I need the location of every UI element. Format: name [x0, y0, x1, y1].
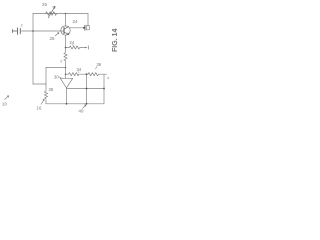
leader tick label 30	[59, 76, 62, 79]
svg-text:16: 16	[37, 106, 42, 111]
wire emitter down to input node	[65, 35, 67, 52]
wire resistor to node	[65, 62, 67, 79]
node junction output/right bus	[103, 88, 105, 90]
node junction feedback/rail	[86, 103, 88, 105]
wire box left vertical	[45, 68, 47, 91]
wire top rail down to crystal	[87, 14, 89, 26]
svg-text:2: 2	[21, 24, 23, 28]
wire box top horizontal	[46, 67, 66, 69]
svg-text:34: 34	[77, 67, 82, 72]
capacitor C input lead	[13, 30, 17, 32]
node junction collector/rail	[65, 13, 67, 15]
node junction cap/left bus	[32, 30, 34, 32]
leader tick label 24b	[72, 44, 75, 46]
svg-text:40: 40	[79, 109, 84, 114]
output terminal stub	[104, 73, 107, 75]
svg-text:10: 10	[2, 102, 7, 107]
wire output down to rail	[66, 88, 68, 104]
resistor R vertical upper zigzag	[64, 53, 67, 61]
crystal body rectangle	[86, 26, 89, 30]
node junction right lead	[83, 27, 85, 29]
leader arrow label 16	[41, 99, 44, 104]
wire branch to arrow	[80, 47, 86, 49]
svg-text:24: 24	[73, 19, 78, 24]
wire emitter branch right	[66, 47, 70, 49]
wire collector up to rail	[65, 14, 67, 27]
transistor Q collector diagonal	[64, 27, 69, 30]
svg-text:30: 30	[54, 75, 59, 80]
svg-text:FIG. 14: FIG. 14	[112, 29, 119, 52]
capacitor C left terminal tick	[12, 29, 14, 32]
leader arrow label 40	[83, 105, 87, 109]
node junction box-top/input	[65, 67, 67, 69]
svg-text:2: 2	[60, 60, 62, 64]
leader tick label 36	[95, 66, 97, 69]
wire output horizontal to right bus	[67, 88, 105, 90]
crystal left plate	[84, 25, 86, 30]
svg-text:36: 36	[97, 62, 102, 67]
wire feedback line with resistors	[66, 73, 69, 75]
wire between R1 and R2	[80, 73, 89, 75]
resistor R emitter-branch zigzag	[69, 46, 79, 49]
node junction feedback/output	[86, 88, 88, 90]
wire right vertical bus	[103, 74, 105, 104]
leader arrow label 10	[5, 96, 9, 100]
transistor Q emitter diagonal with arrow	[64, 32, 69, 35]
wire transistor right lead	[70, 27, 84, 29]
resistor R lower-left vertical zigzag	[44, 91, 47, 99]
leader line label 28	[55, 33, 59, 36]
potentiometer R26 zigzag	[46, 12, 57, 16]
wire capacitor to transistor base	[22, 30, 64, 32]
node junction feedback-line/input	[65, 73, 67, 75]
wire left-to-box horizontal	[33, 83, 46, 85]
svg-text:38: 38	[49, 87, 54, 92]
node junction feedback top	[86, 73, 88, 75]
transistor Q circle	[61, 26, 70, 35]
capacitor C plates	[18, 28, 21, 35]
node junction output/rail	[66, 103, 68, 105]
node junction emitter branch	[65, 47, 67, 49]
wire left vertical bus	[32, 14, 34, 85]
terminal tick branch	[87, 46, 89, 49]
arrowhead branch terminal	[85, 47, 87, 49]
transistor Q base bar	[63, 28, 65, 34]
potentiometer arrow	[48, 6, 55, 17]
wire feedback vertical drop	[86, 74, 88, 104]
wire R2 to right bus	[99, 73, 105, 75]
svg-text:o: o	[107, 76, 109, 80]
wire top rail	[33, 13, 88, 15]
svg-text:24: 24	[70, 40, 75, 45]
svg-text:28: 28	[50, 36, 55, 41]
resistor R2 horizontal zigzag	[88, 73, 98, 76]
resistor R1 horizontal zigzag	[69, 73, 79, 76]
leader tick label 34	[77, 71, 80, 72]
op-amp U1 triangle	[60, 78, 72, 88]
wire resistor to bottom rail	[45, 100, 47, 104]
wire bottom rail	[46, 103, 104, 105]
svg-text:26: 26	[42, 2, 47, 7]
